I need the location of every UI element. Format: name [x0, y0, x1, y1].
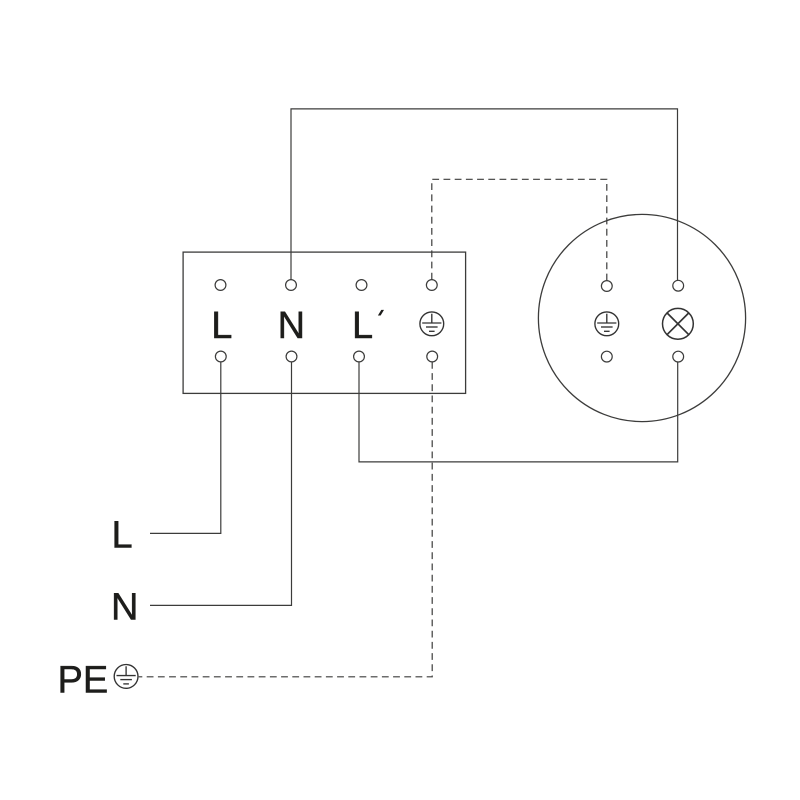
PE earth symbol — [114, 665, 138, 689]
lamp outline circle — [538, 214, 745, 421]
svg-text:N: N — [278, 305, 305, 347]
lamp terminal top-left — [601, 281, 612, 292]
wire PE-top dashed: terminal up, right, down to lamp top-left — [432, 179, 607, 280]
accent of L' — [378, 310, 384, 316]
wire L bottom to label L (solid) — [150, 362, 221, 534]
wire N-top to lamp top-right (solid) — [291, 109, 678, 280]
svg-text:L: L — [352, 305, 373, 347]
terminal box — [183, 252, 466, 393]
earth symbol in lamp — [595, 312, 619, 336]
lamp terminal top-right — [673, 280, 684, 291]
terminal L' bottom — [354, 351, 365, 362]
lamp terminal bottom-left — [601, 351, 612, 362]
svg-text:N: N — [111, 586, 138, 628]
terminal N top — [286, 280, 297, 291]
terminal N bottom — [286, 351, 297, 362]
terminal PE top — [426, 280, 437, 291]
wire PE bottom dashed to PE symbol — [139, 362, 433, 677]
terminal PE bottom — [427, 351, 438, 362]
wire L' bottom to lamp bottom-right (solid) — [359, 362, 678, 462]
lamp terminal bottom-right — [673, 351, 684, 362]
terminal L bottom — [215, 351, 226, 362]
svg-text:L: L — [112, 514, 133, 556]
terminal L' top — [356, 280, 367, 291]
lamp symbol (circle with X) — [663, 308, 694, 339]
terminal L top — [215, 280, 226, 291]
wire N bottom to label N (solid) — [150, 362, 292, 606]
svg-text:L: L — [211, 305, 232, 347]
svg-text:PE: PE — [58, 659, 109, 701]
earth symbol in box — [420, 312, 444, 336]
